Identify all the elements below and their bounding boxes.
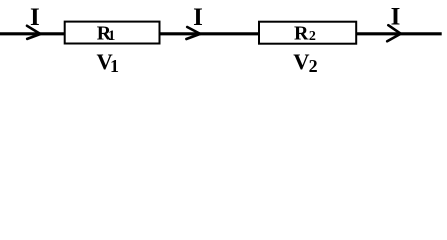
svg-text:I: I <box>30 4 40 31</box>
svg-text:1: 1 <box>108 28 116 44</box>
wire <box>0 32 65 35</box>
wire <box>160 32 259 35</box>
svg-text:1: 1 <box>110 56 119 76</box>
resistor R2 <box>259 22 356 44</box>
current arrow I (right) <box>387 25 401 41</box>
resistor R1 <box>65 22 160 44</box>
label R1 <box>97 23 116 45</box>
svg-text:2: 2 <box>309 29 316 44</box>
svg-text:2: 2 <box>309 56 318 76</box>
label R2 <box>294 23 316 45</box>
current arrow I (left) <box>27 26 40 39</box>
svg-text:R: R <box>294 23 309 45</box>
wire <box>356 32 441 35</box>
label V2 <box>293 49 317 76</box>
svg-text:V: V <box>293 49 309 74</box>
svg-text:I: I <box>391 4 401 31</box>
current arrow I (middle) <box>186 27 200 39</box>
label V1 <box>97 49 120 76</box>
svg-text:I: I <box>193 4 203 31</box>
